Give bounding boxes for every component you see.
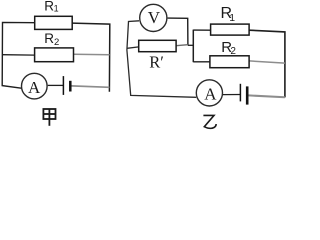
svg-text:2: 2 bbox=[54, 37, 59, 48]
svg-text:2: 2 bbox=[230, 46, 236, 57]
svg-text:1: 1 bbox=[229, 12, 235, 24]
svg-text:R: R bbox=[44, 31, 54, 46]
svg-text:A: A bbox=[28, 78, 41, 97]
svg-text:V: V bbox=[148, 8, 161, 27]
svg-text:1: 1 bbox=[54, 4, 59, 14]
svg-text:A: A bbox=[204, 84, 217, 103]
svg-text:R′: R′ bbox=[149, 53, 164, 72]
